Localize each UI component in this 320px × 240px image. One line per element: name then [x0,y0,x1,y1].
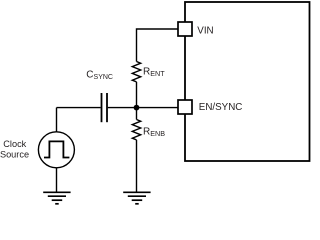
svg-text:EN/SYNC: EN/SYNC [199,102,243,113]
svg-text:RENB: RENB [143,127,165,138]
svg-text:CSYNC: CSYNC [86,70,113,81]
svg-text:RENT: RENT [143,67,165,78]
svg-text:Clock: Clock [3,139,26,149]
svg-text:Source: Source [0,150,29,160]
svg-text:VIN: VIN [197,26,213,37]
